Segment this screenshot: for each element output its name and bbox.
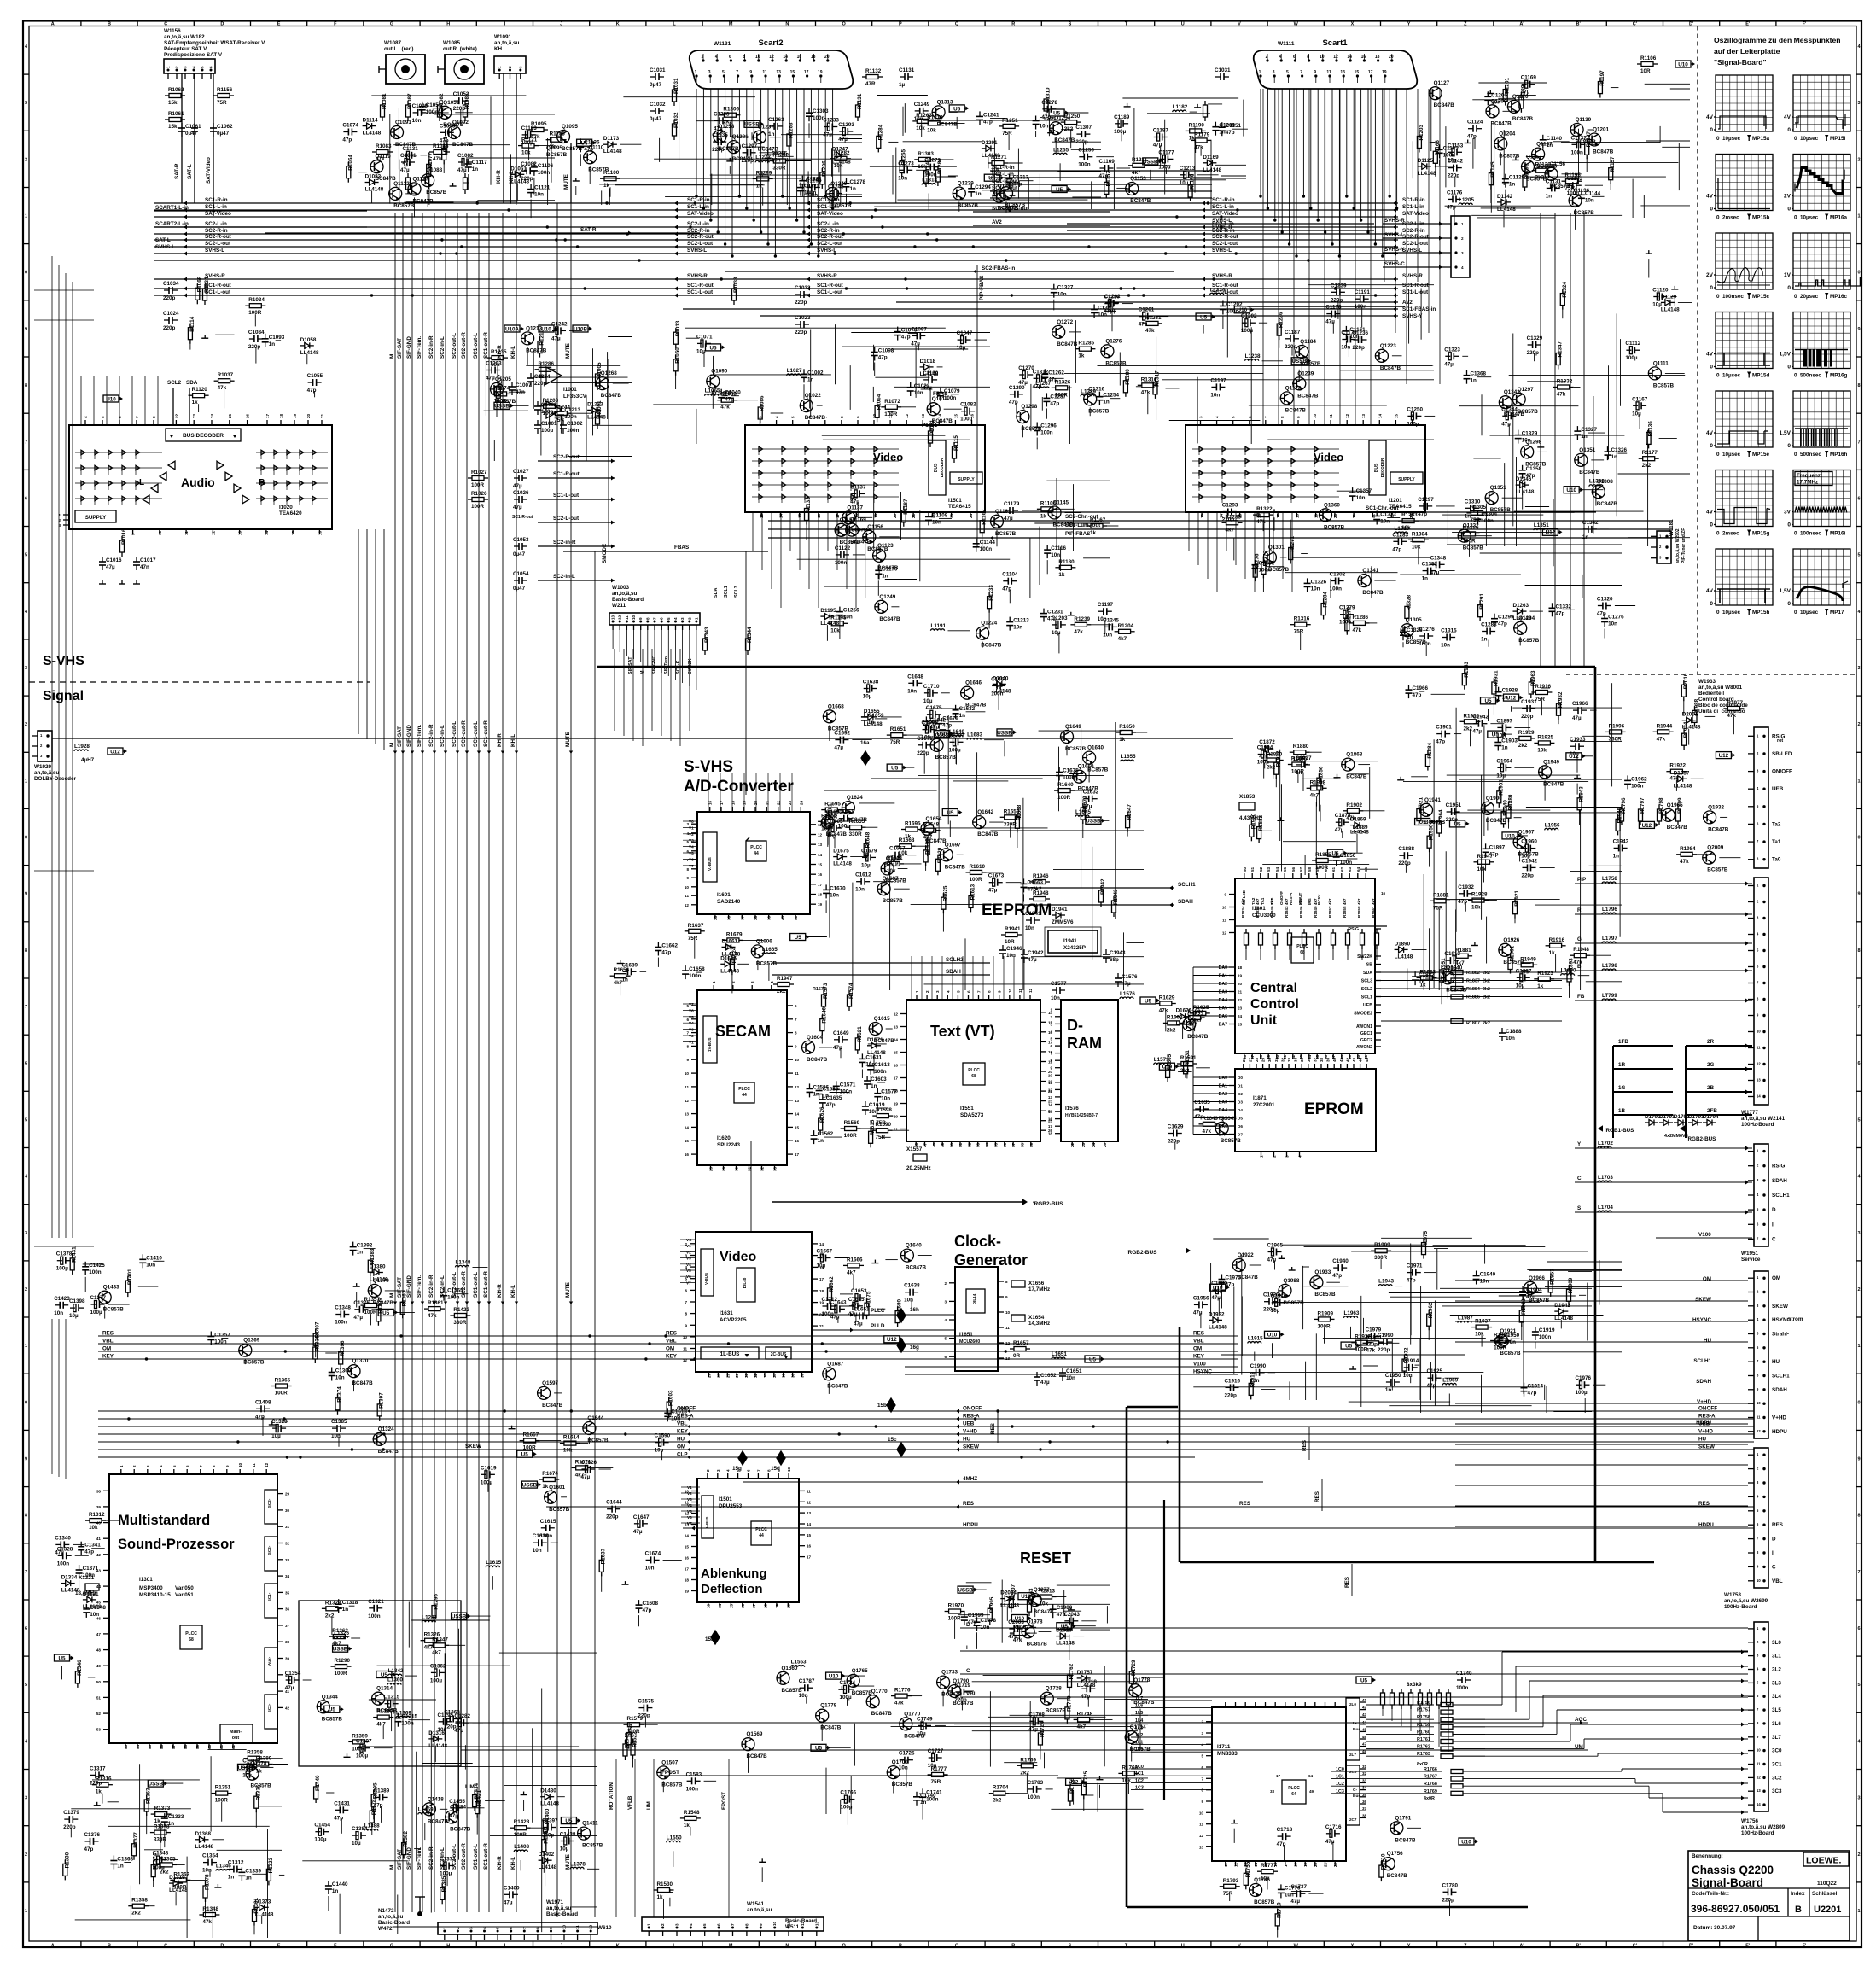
svg-text:C1575: C1575 — [638, 1699, 654, 1705]
inductor L1928 — [74, 750, 88, 751]
svg-text:100µ: 100µ — [430, 1677, 443, 1683]
svg-text:X: X — [1351, 1944, 1355, 1949]
svg-text:3C1: 3C1 — [1772, 1762, 1782, 1768]
svg-text:10: 10 — [1199, 1811, 1204, 1815]
capacitor C1061 — [181, 123, 183, 128]
svg-text:L1798: L1798 — [1602, 963, 1617, 969]
svg-text:8: 8 — [743, 55, 745, 60]
svg-text:8: 8 — [744, 1923, 749, 1926]
svg-text:L1651: L1651 — [1052, 1351, 1067, 1357]
svg-text:51: 51 — [1250, 866, 1255, 872]
svg-text:2k2: 2k2 — [325, 1613, 335, 1619]
svg-text:12: 12 — [1234, 1862, 1238, 1867]
svg-text:1n: 1n — [1103, 400, 1110, 405]
Scart2 pin drop wires — [696, 89, 697, 196]
svg-text:2C0: 2C0 — [1349, 1770, 1357, 1774]
svg-text:9: 9 — [1857, 1457, 1860, 1462]
wire web (330,1870) — [302, 1602, 597, 1934]
svg-text:4: 4 — [770, 981, 774, 983]
svg-text:U10: U10 — [1461, 1839, 1471, 1845]
svg-text:MP16i: MP16i — [1830, 531, 1845, 537]
svg-text:R1762: R1762 — [1417, 1745, 1430, 1750]
svg-text:D2: D2 — [1238, 1092, 1243, 1096]
svg-text:Text (VT): Text (VT) — [930, 1023, 995, 1040]
svg-text:SKEW: SKEW — [1772, 1304, 1788, 1310]
svg-text:LL4148: LL4148 — [1203, 167, 1221, 173]
svg-text:1n: 1n — [1465, 513, 1471, 519]
svg-text:C1341: C1341 — [84, 1543, 101, 1549]
svg-text:D4: D4 — [1238, 1108, 1243, 1112]
svg-text:C1874: C1874 — [1335, 813, 1351, 819]
svg-text:C1689: C1689 — [622, 962, 638, 968]
svg-text:13: 13 — [1757, 1078, 1761, 1082]
svg-text:C1856: C1856 — [1340, 853, 1356, 859]
svg-text:0: 0 — [1787, 285, 1791, 291]
component cluster (1286,105) — [1099, 103, 1248, 204]
svg-text:35: 35 — [285, 1590, 290, 1595]
svg-text:47p: 47p — [1392, 546, 1401, 552]
svg-text:SVHS-Y: SVHS-Y — [1384, 247, 1405, 253]
svg-text:SC1-Chr.-out: SC1-Chr.-out — [1366, 505, 1399, 511]
svg-text:47µ: 47µ — [1572, 715, 1582, 721]
svg-text:1n: 1n — [1219, 130, 1226, 136]
svg-text:17: 17 — [1276, 513, 1280, 518]
oscillogram panel separator — [1697, 26, 1698, 675]
wire web (930,560) — [797, 481, 1110, 598]
svg-text:Ta0: Ta0 — [1772, 857, 1781, 863]
svg-text:2: 2 — [1857, 157, 1860, 162]
svg-text:Q1640: Q1640 — [906, 1243, 922, 1249]
svg-text:BC847B: BC847B — [879, 616, 900, 622]
svg-text:'RGB1-BUS: 'RGB1-BUS — [1605, 1128, 1634, 1134]
component cluster (700,1900) — [623, 1660, 807, 1919]
svg-text:C1787: C1787 — [799, 1678, 815, 1684]
svg-text:U5: U5 — [709, 345, 717, 351]
1V-BUS port box I1620 — [703, 1016, 717, 1063]
svg-text:U10A: U10A — [505, 326, 520, 332]
svg-text:1n: 1n — [1407, 634, 1413, 640]
svg-text:L1928: L1928 — [74, 744, 90, 750]
svg-text:11: 11 — [1048, 1081, 1052, 1085]
svg-text:47k: 47k — [1353, 627, 1362, 633]
svg-text:SVHS-L: SVHS-L — [155, 244, 175, 250]
svg-text:SKEW: SKEW — [1698, 1444, 1715, 1450]
svg-text:59: 59 — [195, 1744, 200, 1749]
svg-text:10: 10 — [1048, 1073, 1053, 1077]
svg-text:SIF-Tem.: SIF-Tem. — [417, 336, 422, 359]
svg-text:3C2: 3C2 — [1772, 1775, 1782, 1781]
svg-text:43: 43 — [1352, 1057, 1356, 1062]
svg-text:10k: 10k — [1261, 1876, 1270, 1881]
svg-text:5: 5 — [1857, 1683, 1860, 1688]
audio buffer triangles — [168, 461, 175, 470]
svg-text:100n: 100n — [567, 428, 580, 434]
svg-text:13: 13 — [707, 1603, 711, 1608]
svg-text:R1378: R1378 — [371, 1799, 377, 1815]
svg-text:Multistandard: Multistandard — [118, 1513, 210, 1528]
svg-text:R1310: R1310 — [927, 114, 943, 120]
svg-text:Scart2: Scart2 — [758, 38, 783, 48]
svg-text:14: 14 — [685, 1125, 690, 1129]
svg-text:W1111: W1111 — [1278, 41, 1295, 47]
svg-text:an,to,ä,su: an,to,ä,su — [34, 770, 60, 776]
svg-text:2: 2 — [25, 1287, 27, 1292]
svg-text:L1550: L1550 — [667, 1835, 682, 1841]
svg-text:11: 11 — [1757, 1762, 1761, 1766]
C-Bus port box — [1346, 1765, 1360, 1825]
svg-text:U12: U12 — [887, 1337, 897, 1343]
svg-text:Ta1: Ta1 — [1772, 839, 1781, 845]
svg-text:6: 6 — [25, 496, 27, 501]
1L bus labels — [1131, 1700, 1212, 1701]
svg-text:SC2-L-out: SC2-L-out — [687, 241, 714, 247]
svg-text:C1307: C1307 — [1075, 125, 1092, 131]
svg-text:SC2-in-L: SC2-in-L — [440, 725, 446, 747]
svg-text:5: 5 — [722, 70, 725, 75]
svg-text:100n: 100n — [1443, 152, 1456, 158]
svg-text:3C0: 3C0 — [1772, 1748, 1782, 1754]
svg-text:BC847B: BC847B — [965, 703, 987, 709]
svg-text:6: 6 — [685, 1288, 687, 1292]
scart1 right side R1106 — [1641, 62, 1653, 67]
svg-text:R: R — [1011, 22, 1015, 27]
wire AV2 — [896, 301, 1398, 303]
svg-text:BC847B: BC847B — [1395, 1837, 1416, 1843]
svg-text:R1704: R1704 — [993, 1785, 1009, 1791]
ONOFF control group — [98, 1410, 1195, 1412]
svg-text:I1620: I1620 — [717, 1135, 731, 1141]
svg-text:LL4148: LL4148 — [1077, 1683, 1096, 1689]
svg-text:auf der Leiterplatte: auf der Leiterplatte — [1714, 47, 1780, 55]
svg-text:N: N — [785, 1944, 789, 1949]
RGB2-BUS label mid — [1022, 1199, 1028, 1205]
svg-text:C': C' — [1633, 22, 1638, 27]
svg-text:C1209: C1209 — [1219, 123, 1235, 129]
svg-text:C1940: C1940 — [1332, 1258, 1349, 1264]
svg-text:R1377: R1377 — [133, 1832, 139, 1848]
svg-text:SVHS-Y: SVHS-Y — [1402, 313, 1423, 319]
svg-text:I1201: I1201 — [1389, 498, 1402, 504]
svg-text:BC847B: BC847B — [1543, 781, 1564, 787]
svg-text:P: P — [899, 22, 902, 27]
svg-text:Ta2: Ta2 — [1772, 821, 1781, 827]
svg-text:Q1687: Q1687 — [827, 1361, 843, 1367]
svg-text:C1203: C1203 — [486, 361, 502, 367]
svg-text:SVHS-R: SVHS-R — [1212, 273, 1232, 279]
svg-text:Q1268: Q1268 — [601, 370, 617, 376]
svg-text:SIF-GND: SIF-GND — [406, 725, 412, 747]
svg-text:12: 12 — [618, 615, 622, 620]
svg-text:100n: 100n — [1631, 783, 1644, 789]
svg-text:5: 5 — [1857, 553, 1860, 558]
svg-text:R1132: R1132 — [865, 68, 882, 74]
15a diamond — [711, 1631, 720, 1644]
svg-text:R1304: R1304 — [1412, 531, 1428, 537]
svg-text:R1031: R1031 — [673, 78, 679, 94]
svg-text:DA7: DA7 — [1219, 1023, 1227, 1028]
svg-text:42: 42 — [1362, 1706, 1367, 1710]
svg-text:Q1933: Q1933 — [1314, 1269, 1331, 1275]
svg-text:62: 62 — [1340, 866, 1344, 872]
svg-text:0: 0 — [25, 836, 27, 841]
svg-text:R1574: R1574 — [848, 983, 854, 999]
svg-text:1k: 1k — [1537, 983, 1544, 989]
svg-text:C1287: C1287 — [1050, 394, 1066, 400]
svg-text:4V: 4V — [1706, 194, 1714, 200]
svg-text:C1296: C1296 — [1040, 423, 1057, 429]
svg-text:10n: 10n — [1025, 925, 1034, 931]
svg-text:Basic-Board: Basic-Board — [546, 1911, 578, 1917]
svg-text:DA1: DA1 — [1219, 1084, 1227, 1089]
svg-text:21: 21 — [912, 513, 916, 518]
svg-text:R1346: R1346 — [77, 1660, 83, 1676]
svg-text:1: 1 — [25, 214, 27, 219]
R1942 resistor — [1099, 890, 1104, 902]
svg-text:35: 35 — [1300, 1057, 1304, 1062]
svg-text:0µ47: 0µ47 — [513, 551, 526, 557]
svg-text:C1071: C1071 — [696, 334, 713, 340]
svg-text:C1675: C1675 — [926, 705, 942, 711]
svg-text:BUS DECODER: BUS DECODER — [183, 433, 224, 439]
svg-text:W1085: W1085 — [443, 40, 460, 46]
15b diamond — [887, 1398, 895, 1412]
svg-text:DA3: DA3 — [1219, 1100, 1227, 1106]
svg-text:LL4148: LL4148 — [867, 1050, 886, 1056]
resistor R1082 — [438, 105, 442, 117]
svg-text:330R: 330R — [453, 1320, 467, 1326]
svg-text:D2026: D2026 — [1056, 1628, 1072, 1634]
svg-text:15: 15 — [729, 1603, 733, 1608]
svg-text:2: 2 — [1857, 1287, 1860, 1292]
svg-text:47p: 47p — [1413, 692, 1422, 698]
svg-text:5: 5 — [25, 1683, 27, 1688]
svg-text:SIF-Tem.: SIF-Tem. — [417, 1847, 422, 1870]
svg-text:R1316: R1316 — [1294, 616, 1310, 622]
wire web (1430,560) — [1234, 491, 1622, 598]
resistor R1034 — [203, 289, 207, 300]
svg-text:Q1298: Q1298 — [1021, 404, 1037, 410]
component cluster (1180,325) — [1009, 284, 1180, 450]
svg-text:14: 14 — [795, 1112, 800, 1117]
svg-text:1n: 1n — [269, 341, 276, 347]
svg-text:I1941: I1941 — [1063, 938, 1077, 944]
svg-text:47µ: 47µ — [513, 483, 522, 489]
svg-text:N: N — [785, 22, 789, 27]
oscillogram MP15c — [1706, 233, 1773, 300]
svg-text:Q1301: Q1301 — [1268, 545, 1285, 551]
svg-text:10µ: 10µ — [1180, 180, 1189, 186]
svg-text:GEC2: GEC2 — [1360, 1038, 1372, 1043]
svg-text:R1756: R1756 — [1069, 1777, 1075, 1794]
svg-text:6: 6 — [25, 1061, 27, 1066]
svg-text:C1245: C1245 — [1103, 617, 1119, 623]
svg-text:Q1604: Q1604 — [807, 1035, 823, 1041]
svg-text:23: 23 — [1081, 1142, 1086, 1147]
svg-text:2k2: 2k2 — [131, 1911, 141, 1916]
svg-text:40: 40 — [780, 915, 784, 920]
svg-text:R1180: R1180 — [1058, 559, 1075, 565]
svg-text:4: 4 — [673, 617, 678, 620]
svg-text:C: C — [164, 22, 167, 27]
svg-text:Basic-Board: Basic-Board — [612, 597, 644, 603]
svg-text:R1953: R1953 — [1464, 662, 1470, 678]
svg-text:36: 36 — [1362, 1800, 1367, 1804]
svg-text:110Q22: 110Q22 — [1817, 1881, 1837, 1887]
svg-text:10n: 10n — [533, 1548, 542, 1554]
svg-text:47p: 47p — [661, 950, 671, 956]
component cluster (390,1445) — [335, 1242, 487, 1335]
svg-text:L1704: L1704 — [1598, 1205, 1613, 1211]
svg-text:BC847B: BC847B — [526, 347, 547, 353]
svg-text:49: 49 — [96, 1664, 102, 1668]
connector W1756 — [1754, 1622, 1768, 1811]
wire SCART2-L-in — [154, 226, 367, 228]
svg-text:44: 44 — [1359, 1057, 1363, 1062]
svg-text:47p: 47p — [1597, 611, 1606, 617]
svg-text:B: B — [1795, 1905, 1802, 1915]
svg-text:C1348: C1348 — [1430, 555, 1447, 561]
svg-text:BC847B: BC847B — [1054, 137, 1075, 143]
svg-text:LL4148: LL4148 — [83, 1604, 102, 1610]
Y/C/S lines — [1575, 1147, 1752, 1149]
svg-text:SVHS-L: SVHS-L — [1384, 232, 1404, 238]
svg-text:Q1654: Q1654 — [926, 816, 942, 822]
svg-text:10n: 10n — [1441, 643, 1450, 649]
svg-text:24: 24 — [1238, 1014, 1243, 1018]
svg-text:KH-L: KH-L — [510, 1285, 516, 1298]
svg-text:MSP3400: MSP3400 — [139, 1585, 163, 1591]
svg-text:10: 10 — [1757, 1401, 1761, 1405]
svg-text:2k2: 2k2 — [993, 1798, 1002, 1804]
svg-text:7: 7 — [1857, 440, 1860, 445]
svg-text:4: 4 — [686, 831, 689, 836]
svg-text:6: 6 — [717, 1923, 721, 1926]
svg-text:V5: V5 — [689, 1015, 694, 1019]
svg-text:47p: 47p — [1556, 610, 1565, 616]
svg-text:C1368: C1368 — [1471, 371, 1487, 377]
svg-text:3: 3 — [686, 822, 689, 826]
svg-text:7: 7 — [686, 1031, 689, 1036]
svg-text:RES-A: RES-A — [1698, 1414, 1716, 1420]
svg-text:BC857B: BC857B — [661, 1782, 683, 1788]
title block — [1688, 1851, 1850, 1940]
svg-text:MP15g: MP15g — [1752, 531, 1769, 537]
R1946 resistor — [1034, 880, 1046, 884]
svg-text:36: 36 — [727, 915, 731, 920]
svg-text:7: 7 — [685, 1300, 687, 1304]
svg-text:47p: 47p — [983, 119, 993, 125]
svg-text:R1530: R1530 — [657, 1881, 673, 1887]
resistor R1095 — [532, 128, 544, 132]
svg-text:17: 17 — [1048, 1124, 1053, 1129]
svg-text:C1971: C1971 — [1407, 1263, 1423, 1269]
svg-text:3: 3 — [1857, 1231, 1860, 1236]
svg-text:Q1137: Q1137 — [847, 505, 863, 510]
svg-text:'RGB2-BUS: 'RGB2-BUS — [1127, 1250, 1157, 1256]
svg-text:Y: Y — [1407, 1944, 1411, 1949]
svg-text:R1156: R1156 — [217, 87, 233, 93]
svg-text:PLCC: PLCC — [1288, 1786, 1300, 1791]
svg-text:TA1: TA1 — [1261, 897, 1265, 905]
svg-text:2V: 2V — [1784, 194, 1792, 200]
svg-text:47p: 47p — [84, 1549, 94, 1555]
svg-text:13: 13 — [1340, 70, 1345, 75]
svg-text:R1861 4k7: R1861 4k7 — [1372, 898, 1376, 918]
svg-text:R1637: R1637 — [601, 1548, 607, 1564]
svg-text:10n: 10n — [1506, 1036, 1515, 1041]
svg-text:100R: 100R — [523, 1445, 537, 1451]
svg-text:14: 14 — [818, 853, 823, 857]
svg-text:W1756: W1756 — [1741, 1818, 1758, 1824]
svg-text:I1020: I1020 — [279, 505, 293, 510]
svg-text:L1797: L1797 — [1602, 936, 1617, 942]
svg-text:8: 8 — [1201, 1788, 1203, 1793]
svg-text:11: 11 — [1018, 989, 1022, 993]
svg-text:1n: 1n — [1582, 534, 1589, 540]
svg-text:29: 29 — [725, 1373, 730, 1378]
svg-text:R1286: R1286 — [539, 361, 555, 367]
svg-text:47µ: 47µ — [403, 160, 412, 166]
component cluster (180,330) — [188, 276, 323, 412]
svg-text:10k: 10k — [927, 127, 936, 133]
wire web (960,790) — [824, 709, 1144, 990]
svg-text:21: 21 — [1238, 990, 1243, 995]
16a diamond — [861, 751, 870, 765]
svg-text:BC857B: BC857B — [1005, 202, 1026, 208]
svg-text:MUTE: MUTE — [565, 732, 571, 747]
R1573 resistor — [822, 995, 826, 1006]
svg-text:BUS: BUS — [934, 463, 939, 472]
svg-text:220p: 220p — [1448, 173, 1460, 179]
svg-text:V4: V4 — [689, 1021, 694, 1025]
1L-BUS box — [701, 1347, 759, 1359]
svg-text:42: 42 — [1345, 1057, 1349, 1062]
svg-text:C1872: C1872 — [1259, 739, 1275, 745]
svg-text:1V: 1V — [1784, 272, 1792, 278]
svg-text:L1205: L1205 — [1459, 197, 1474, 203]
svg-text:PLCC: PLCC — [185, 1631, 197, 1636]
svg-text:3: 3 — [184, 66, 188, 68]
capacitor C1082 — [458, 161, 463, 163]
svg-text:8: 8 — [1857, 948, 1860, 954]
svg-text:R1975: R1975 — [1423, 1231, 1429, 1247]
svg-text:C1942: C1942 — [1472, 715, 1489, 720]
svg-text:75R: 75R — [554, 417, 564, 423]
svg-text:17: 17 — [1284, 1862, 1288, 1867]
svg-text:1µ: 1µ — [899, 82, 906, 88]
svg-text:2: 2 — [508, 66, 512, 68]
svg-text:10: 10 — [1005, 1310, 1011, 1315]
svg-text:18: 18 — [764, 1603, 768, 1608]
svg-text:47µ: 47µ — [285, 1685, 294, 1691]
svg-text:Q1941: Q1941 — [1424, 797, 1441, 803]
svg-text:V6: V6 — [689, 1008, 694, 1012]
svg-text:4: 4 — [1298, 1155, 1302, 1158]
svg-text:0: 0 — [1787, 443, 1791, 449]
svg-text:BC857B: BC857B — [1406, 639, 1427, 645]
svg-text:Q1201: Q1201 — [1593, 127, 1609, 133]
svg-text:23: 23 — [788, 800, 792, 805]
svg-text:0: 0 — [25, 271, 27, 276]
svg-text:Unit: Unit — [1250, 1013, 1278, 1028]
svg-text:1n: 1n — [1471, 378, 1477, 384]
svg-text:C1590: C1590 — [655, 1433, 671, 1439]
svg-text:36: 36 — [285, 1607, 290, 1612]
svg-text:D1125: D1125 — [1418, 158, 1434, 164]
svg-text:34: 34 — [772, 1373, 777, 1378]
svg-text:BC857B: BC857B — [1268, 567, 1290, 573]
svg-text:R1884: R1884 — [1427, 743, 1433, 759]
